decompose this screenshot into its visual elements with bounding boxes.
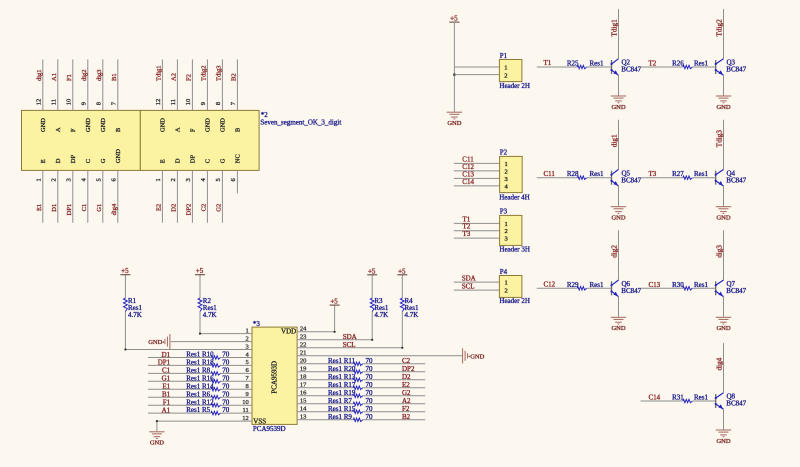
svg-text:dig4: dig4 xyxy=(716,357,724,370)
svg-text:Res1: Res1 xyxy=(694,281,709,289)
svg-text:GND: GND xyxy=(716,215,730,222)
svg-text:4.7K: 4.7K xyxy=(203,311,217,319)
svg-text:A2: A2 xyxy=(402,397,411,405)
svg-text:2: 2 xyxy=(505,168,508,175)
svg-text:E2: E2 xyxy=(402,381,410,389)
svg-text:70: 70 xyxy=(366,373,374,381)
svg-text:dig1: dig1 xyxy=(611,134,619,147)
svg-text:Res1 R16: Res1 R16 xyxy=(186,374,214,382)
svg-text:R30: R30 xyxy=(672,281,684,289)
svg-text:10: 10 xyxy=(185,99,192,106)
svg-text:70: 70 xyxy=(222,351,230,359)
svg-text:Header 3H: Header 3H xyxy=(499,246,530,254)
svg-text:70: 70 xyxy=(222,374,230,382)
svg-text:DP1: DP1 xyxy=(66,204,73,216)
svg-text:11: 11 xyxy=(170,99,177,105)
svg-text:1: 1 xyxy=(504,64,507,71)
svg-text:Res1: Res1 xyxy=(694,170,709,178)
svg-text:R27: R27 xyxy=(672,170,684,178)
svg-text:70: 70 xyxy=(366,365,374,373)
svg-text:B2: B2 xyxy=(402,413,411,421)
svg-text:PCA9539D: PCA9539D xyxy=(253,425,286,433)
svg-text:Tdig1: Tdig1 xyxy=(611,19,619,37)
svg-text:B1: B1 xyxy=(111,73,118,81)
svg-text:dig4: dig4 xyxy=(111,203,118,215)
svg-text:GND: GND xyxy=(447,120,461,127)
svg-text:Res1 R11: Res1 R11 xyxy=(328,357,356,365)
svg-text:R31: R31 xyxy=(672,394,684,402)
svg-text:dig2: dig2 xyxy=(81,69,88,81)
svg-text:BC847: BC847 xyxy=(621,287,641,295)
svg-text:DP: DP xyxy=(189,155,196,164)
svg-text:G1: G1 xyxy=(162,375,171,383)
svg-text:B2: B2 xyxy=(231,73,238,81)
svg-text:C: C xyxy=(85,159,92,163)
svg-text:F1: F1 xyxy=(163,399,171,407)
svg-text:BC847: BC847 xyxy=(726,176,746,184)
svg-text:9: 9 xyxy=(81,102,88,105)
svg-text:70: 70 xyxy=(222,359,230,367)
svg-text:1: 1 xyxy=(505,280,508,287)
svg-text:Tdig1: Tdig1 xyxy=(156,65,163,81)
svg-text:5: 5 xyxy=(215,178,222,181)
svg-text:GND: GND xyxy=(100,118,107,132)
svg-text:GND: GND xyxy=(159,118,166,132)
svg-text:2: 2 xyxy=(170,178,177,181)
svg-text:E: E xyxy=(40,159,47,163)
svg-text:Tdig2: Tdig2 xyxy=(716,19,724,37)
svg-text:PCA9593D: PCA9593D xyxy=(271,361,279,394)
svg-text:1: 1 xyxy=(505,161,508,168)
svg-text:+5: +5 xyxy=(196,267,204,275)
svg-text:10: 10 xyxy=(66,99,73,106)
svg-text:C11: C11 xyxy=(544,170,556,178)
svg-text:Res1: Res1 xyxy=(590,170,605,178)
svg-text:F: F xyxy=(70,128,77,132)
svg-text:P1: P1 xyxy=(500,52,508,60)
svg-text:BC847: BC847 xyxy=(726,66,746,74)
svg-text:GND: GND xyxy=(85,118,92,132)
svg-text:8: 8 xyxy=(215,102,222,105)
svg-text:G: G xyxy=(100,158,107,163)
svg-text:G2: G2 xyxy=(402,389,411,397)
svg-text:GND: GND xyxy=(611,325,625,332)
svg-text:F: F xyxy=(189,128,196,132)
svg-text:SDA: SDA xyxy=(343,333,357,341)
svg-text:C14: C14 xyxy=(462,178,474,186)
svg-text:dig1: dig1 xyxy=(36,69,43,81)
svg-text:NC: NC xyxy=(234,154,241,163)
svg-text:VDD: VDD xyxy=(281,328,296,336)
svg-text:1: 1 xyxy=(36,178,43,181)
svg-text:C1: C1 xyxy=(81,204,88,212)
svg-text:9: 9 xyxy=(200,102,207,105)
svg-text:1: 1 xyxy=(155,178,162,181)
svg-text:R26: R26 xyxy=(672,60,684,68)
svg-text:Header 2H: Header 2H xyxy=(499,297,530,305)
svg-text:C: C xyxy=(204,159,211,163)
svg-text:Tdig2: Tdig2 xyxy=(201,65,208,81)
svg-text:4.7K: 4.7K xyxy=(405,311,419,319)
svg-text:C13: C13 xyxy=(649,281,661,289)
svg-text:T3: T3 xyxy=(649,170,657,178)
svg-text:Res1: Res1 xyxy=(590,281,605,289)
svg-text:4.7K: 4.7K xyxy=(374,311,388,319)
svg-text:12: 12 xyxy=(155,99,162,106)
svg-text:D2: D2 xyxy=(171,204,178,212)
svg-text:BC847: BC847 xyxy=(726,287,746,295)
svg-text:Seven_segment_OK_3_digit: Seven_segment_OK_3_digit xyxy=(260,118,341,126)
svg-text:+5: +5 xyxy=(450,15,458,23)
svg-text:70: 70 xyxy=(366,389,374,397)
svg-text:DP2: DP2 xyxy=(186,204,193,216)
svg-text:12: 12 xyxy=(36,99,43,106)
svg-text:C1: C1 xyxy=(162,367,171,375)
svg-text:Res1: Res1 xyxy=(694,60,709,68)
svg-text:B1: B1 xyxy=(162,391,171,399)
svg-text:Res1 R19: Res1 R19 xyxy=(328,389,356,397)
svg-text:Res1: Res1 xyxy=(590,60,605,68)
svg-text:Res1: Res1 xyxy=(694,394,709,402)
svg-text:E1: E1 xyxy=(36,204,43,211)
svg-text:4.7K: 4.7K xyxy=(128,311,142,319)
svg-text:P2: P2 xyxy=(500,149,508,157)
svg-text:+5: +5 xyxy=(398,267,406,275)
svg-text:11: 11 xyxy=(51,99,58,105)
svg-text:DP2: DP2 xyxy=(402,365,415,373)
svg-text:C2: C2 xyxy=(402,357,411,365)
svg-text:dig3: dig3 xyxy=(96,69,103,81)
svg-text:G2: G2 xyxy=(216,204,223,212)
svg-text:P4: P4 xyxy=(500,268,508,276)
svg-text:70: 70 xyxy=(222,367,230,375)
svg-text:*3: *3 xyxy=(253,320,261,328)
svg-text:T3: T3 xyxy=(463,230,471,238)
svg-text:3: 3 xyxy=(505,236,508,243)
svg-text:GND: GND xyxy=(115,149,122,163)
svg-text:Res1 R13: Res1 R13 xyxy=(328,373,356,381)
svg-text:G1: G1 xyxy=(96,204,103,212)
svg-text:BC847: BC847 xyxy=(621,66,641,74)
svg-text:GND: GND xyxy=(219,118,226,132)
svg-text:GND: GND xyxy=(148,339,162,346)
svg-text:DP1: DP1 xyxy=(158,359,171,367)
svg-text:8: 8 xyxy=(96,102,103,105)
svg-text:Res1 R9: Res1 R9 xyxy=(328,413,352,421)
svg-text:2: 2 xyxy=(505,228,508,235)
svg-text:70: 70 xyxy=(366,381,374,389)
svg-text:GND: GND xyxy=(611,104,625,111)
svg-text:2: 2 xyxy=(505,288,508,295)
svg-text:70: 70 xyxy=(222,398,230,406)
svg-text:GND: GND xyxy=(611,215,625,222)
svg-text:SCL: SCL xyxy=(462,283,475,291)
svg-text:Res1 R17: Res1 R17 xyxy=(328,381,356,389)
svg-text:Tdig3: Tdig3 xyxy=(716,130,724,148)
svg-text:A2: A2 xyxy=(171,73,178,81)
svg-text:B: B xyxy=(115,127,122,132)
svg-text:+5: +5 xyxy=(330,298,338,306)
svg-text:Res1 R15: Res1 R15 xyxy=(328,405,356,413)
svg-text:3: 3 xyxy=(505,176,508,183)
svg-text:70: 70 xyxy=(366,357,374,365)
svg-text:BC847: BC847 xyxy=(726,400,746,408)
svg-text:A: A xyxy=(55,127,62,132)
svg-text:T1: T1 xyxy=(544,59,552,67)
svg-text:70: 70 xyxy=(222,390,230,398)
svg-text:A: A xyxy=(174,127,181,132)
svg-text:2: 2 xyxy=(51,178,58,181)
svg-text:+5: +5 xyxy=(368,267,376,275)
svg-text:GND: GND xyxy=(716,438,730,445)
svg-text:B: B xyxy=(234,127,241,132)
svg-text:Res1 R10: Res1 R10 xyxy=(186,351,214,359)
svg-text:70: 70 xyxy=(366,405,374,413)
svg-text:F2: F2 xyxy=(402,405,410,413)
svg-text:5: 5 xyxy=(96,178,103,181)
svg-text:T2: T2 xyxy=(649,60,657,68)
svg-text:dig2: dig2 xyxy=(611,245,619,258)
svg-text:Tdig3: Tdig3 xyxy=(216,65,223,81)
svg-text:E: E xyxy=(159,159,166,163)
svg-text:D1: D1 xyxy=(162,351,171,359)
svg-text:Res1 R6: Res1 R6 xyxy=(186,390,210,398)
svg-text:E1: E1 xyxy=(162,383,170,391)
svg-text:GND: GND xyxy=(150,440,164,447)
svg-text:Res1 R5: Res1 R5 xyxy=(186,406,210,414)
svg-text:SDA: SDA xyxy=(462,275,476,283)
svg-text:70: 70 xyxy=(222,382,230,390)
svg-text:C2: C2 xyxy=(201,204,208,212)
svg-text:GND: GND xyxy=(716,325,730,332)
svg-text:Res1 R20: Res1 R20 xyxy=(328,365,356,373)
svg-text:D: D xyxy=(174,158,181,163)
svg-text:3: 3 xyxy=(66,178,73,181)
svg-text:Res1 R7: Res1 R7 xyxy=(328,397,352,405)
svg-text:70: 70 xyxy=(366,397,374,405)
svg-text:G: G xyxy=(219,158,226,163)
svg-text:A1: A1 xyxy=(162,406,171,414)
svg-text:3: 3 xyxy=(185,178,192,181)
svg-text:Header 2H: Header 2H xyxy=(499,82,530,90)
svg-text:Res1 R18: Res1 R18 xyxy=(186,359,214,367)
svg-text:F2: F2 xyxy=(186,74,193,81)
svg-text:Res1 R8: Res1 R8 xyxy=(186,367,210,375)
svg-text:BC847: BC847 xyxy=(621,176,641,184)
svg-text:SCL: SCL xyxy=(343,341,356,349)
svg-text:D1: D1 xyxy=(51,204,58,212)
svg-text:P3: P3 xyxy=(500,208,508,216)
svg-text:F1: F1 xyxy=(66,74,73,81)
svg-text:GND: GND xyxy=(40,118,47,132)
svg-text:A1: A1 xyxy=(51,73,58,81)
svg-text:Header 4H: Header 4H xyxy=(499,193,530,201)
svg-text:D: D xyxy=(55,158,62,163)
svg-text:GND: GND xyxy=(716,104,730,111)
svg-text:dig3: dig3 xyxy=(716,245,724,258)
svg-text:C12: C12 xyxy=(544,281,556,289)
svg-text:D2: D2 xyxy=(402,373,411,381)
svg-text:GND: GND xyxy=(470,353,484,360)
svg-text:DP: DP xyxy=(70,155,77,164)
svg-text:70: 70 xyxy=(366,413,374,421)
svg-text:2: 2 xyxy=(504,72,507,79)
svg-text:Res1 R12: Res1 R12 xyxy=(186,398,214,406)
svg-text:C14: C14 xyxy=(649,394,661,402)
svg-text:E2: E2 xyxy=(156,204,163,211)
svg-text:Res1 R14: Res1 R14 xyxy=(186,382,214,390)
svg-text:70: 70 xyxy=(222,406,230,414)
svg-text:+5: +5 xyxy=(121,267,129,275)
svg-text:1: 1 xyxy=(505,221,508,228)
svg-text:GND: GND xyxy=(204,118,211,132)
